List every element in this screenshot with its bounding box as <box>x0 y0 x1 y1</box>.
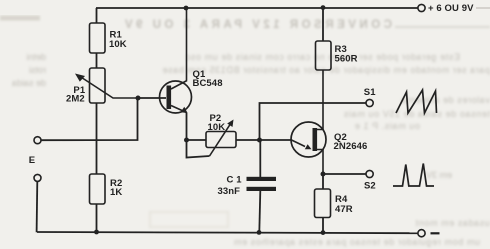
svg-text:em 3V: em 3V <box>426 170 452 180</box>
node junction top rail / Q1 collector <box>184 6 189 11</box>
wire R4 top <box>322 174 324 189</box>
transistor Q2 circle (UJT) <box>291 122 326 157</box>
P1 wiper arrow <box>79 76 139 99</box>
svg-text:C 1: C 1 <box>227 175 243 186</box>
svg-text:10K: 10K <box>109 39 127 50</box>
svg-text:um bom regulador de tensao par: um bom regulador de tensao para estes ap… <box>233 237 480 247</box>
svg-text:+ 6 OU 9V: + 6 OU 9V <box>428 3 474 14</box>
node bottom rail / R2 <box>94 230 99 235</box>
wire S2 <box>323 173 366 175</box>
Q1 emitter lead <box>171 106 187 113</box>
wire node to P2 <box>187 139 207 141</box>
svg-text:2N2646: 2N2646 <box>334 141 368 152</box>
terminal S2 <box>366 170 373 177</box>
svg-text:CONVERSOR 12V PARA 3 OU 9V: CONVERSOR 12V PARA 3 OU 9V <box>121 19 392 31</box>
terminal minus <box>418 230 425 237</box>
ghost bleed-through title (mirrored) <box>0 18 490 31</box>
node bottom rail / R4 <box>321 230 326 235</box>
waveform sawtooth at S1 <box>396 90 437 113</box>
Q2 base bar <box>313 128 318 151</box>
svg-text:S2: S2 <box>364 180 376 191</box>
wire node to Q2 emitter <box>260 139 293 141</box>
node junction top rail / R3 <box>321 5 326 10</box>
wire R1 to P1 <box>96 53 98 68</box>
transistor Q1 circle <box>160 81 192 113</box>
wire R3 to top rail <box>322 8 324 41</box>
node P2 / C1 / S1 / Q2 emitter <box>257 138 262 143</box>
Q2 base2 lead up <box>317 70 323 130</box>
terminal E upper <box>34 137 41 144</box>
node bottom rail / C1 <box>257 230 262 235</box>
node P1 wiper / Q1 base <box>136 96 141 101</box>
wire R4 to bottom rail <box>322 218 324 233</box>
svg-text:2M2: 2M2 <box>66 94 85 105</box>
wire bottom ground rail <box>37 232 418 233</box>
svg-text:detni: detni <box>26 52 46 62</box>
resistor R1 <box>90 23 106 53</box>
node Q1 emitter / P2 / bypass <box>184 138 189 143</box>
wire Q1 emitter down <box>186 113 188 141</box>
svg-text:ou mais. P 1 e: ou mais. P 1 e <box>354 121 420 131</box>
svg-text:33nF: 33nF <box>218 186 241 197</box>
capacitor C1 plates <box>247 177 277 181</box>
wire top-left corner down to R1 <box>96 8 98 23</box>
wire S1 riser and horizontal <box>260 103 367 140</box>
wire E upper to wiper node <box>41 98 138 140</box>
label minus <box>431 232 440 234</box>
wire E lower to bottom rail <box>36 181 39 232</box>
svg-text:usadas em mont: usadas em mont <box>415 218 490 228</box>
Q1 collector lead <box>171 8 187 89</box>
wire R2 to bottom rail <box>96 204 98 232</box>
node Q2 B1 / R4 / S2 <box>321 172 326 177</box>
resistor R3 <box>316 41 332 70</box>
wire node down to C1 <box>259 140 261 177</box>
potentiometer P1 <box>90 68 106 103</box>
Q1 base bar <box>167 86 172 110</box>
Q2 base1 lead down <box>317 150 323 175</box>
svg-text:47R: 47R <box>335 204 353 215</box>
svg-text:10K: 10K <box>208 122 226 133</box>
terminal +V <box>418 4 425 11</box>
wire P1 to R2 (column) <box>96 103 98 174</box>
svg-text:tensao de saida de 15V ou mais: tensao de saida de 15V ou mais <box>343 109 490 119</box>
svg-text:rotsi: rotsi <box>29 65 46 75</box>
potentiometer P2 <box>206 132 236 148</box>
wire P2 right to node <box>236 139 260 141</box>
terminal S1 <box>366 99 373 106</box>
svg-text:Este gerador pode ser usado no: Este gerador pode ser usado no carro com… <box>185 52 460 62</box>
svg-text:1K: 1K <box>110 187 122 198</box>
P2 wiper arrow <box>210 123 232 156</box>
waveform pulses at S2 <box>393 164 434 187</box>
terminal E lower <box>34 174 41 181</box>
Q2 emitter arrow <box>292 140 306 147</box>
svg-text:BC548: BC548 <box>193 78 223 89</box>
svg-text:560R: 560R <box>335 53 358 64</box>
wire base node to Q1 <box>138 97 166 99</box>
wire faint after +V text <box>476 7 490 9</box>
resistor R4 <box>315 189 331 218</box>
svg-text:S1: S1 <box>364 87 376 98</box>
wire C1 to bottom rail <box>259 191 260 232</box>
wire P2 bypass loop <box>187 140 210 158</box>
svg-text:E: E <box>29 155 35 166</box>
wire top supply rail <box>96 7 418 9</box>
resistor R2 <box>90 174 106 204</box>
ghost bleed-through paragraph lines (mirrored) <box>12 52 490 247</box>
svg-text:de saida: de saida <box>12 78 46 88</box>
